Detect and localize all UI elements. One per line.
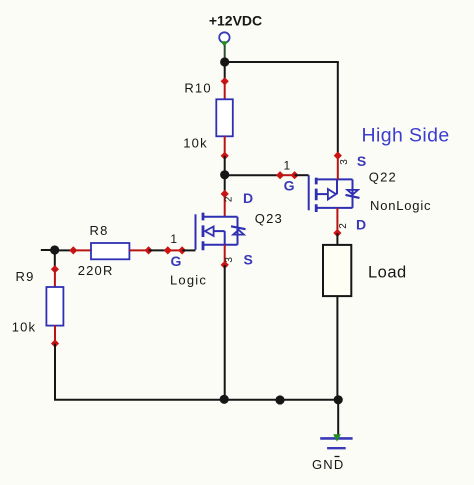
label 2 (Q22 drain pin number) <box>338 223 349 229</box>
svg-text:NonLogic: NonLogic <box>370 198 431 213</box>
wire ground rail middle <box>225 399 339 401</box>
pin mark Q23 gate inner <box>178 246 186 254</box>
label NonLogic <box>370 198 431 213</box>
wire center to R10 <box>224 62 226 81</box>
pin wire Q23 source <box>224 245 226 265</box>
svg-text:1: 1 <box>284 158 291 172</box>
svg-text:R10: R10 <box>184 81 211 96</box>
label D (Q22 drain) <box>356 216 366 232</box>
svg-text:R9: R9 <box>16 269 35 284</box>
label R8 <box>90 223 109 238</box>
transistor Q22 <box>309 175 360 212</box>
label 1 (Q22 gate pin number) <box>284 158 291 172</box>
wire R9 to ground rail <box>55 344 225 400</box>
svg-text:220R: 220R <box>78 263 114 278</box>
label R9 <box>16 269 35 284</box>
svg-text:3: 3 <box>224 257 235 263</box>
svg-text:10k: 10k <box>12 320 37 335</box>
ground GND symbol <box>320 434 352 448</box>
svg-text:10k: 10k <box>183 136 208 151</box>
svg-text:Load: Load <box>368 264 407 282</box>
svg-text:D: D <box>356 216 366 232</box>
resistor R9 <box>46 287 63 326</box>
wire load to ground rail <box>336 296 338 400</box>
svg-text:+12VDC: +12VDC <box>209 13 262 29</box>
pin mark R8 pin1 <box>69 246 77 254</box>
node rail Q23 <box>220 395 229 404</box>
pin wire Q22 source <box>337 156 339 180</box>
pin wire Q22 drain to load <box>336 233 338 245</box>
svg-text:2: 2 <box>224 196 235 202</box>
label Load <box>368 264 407 282</box>
svg-text:3: 3 <box>339 159 350 165</box>
label S (Q22 source) <box>357 153 366 169</box>
svg-text:S: S <box>357 153 366 169</box>
label 220R (R8 value) <box>78 263 114 278</box>
label 10k (R9 value) <box>12 320 37 335</box>
node top junction <box>220 57 229 66</box>
pin wire R10 pin2 <box>224 136 226 156</box>
wire R10 to gate node <box>224 156 226 175</box>
wire supply stub <box>224 45 226 62</box>
wire rail to ground symbol <box>337 400 339 437</box>
pin mark Q22 drain <box>333 229 341 237</box>
wire junction to R9 <box>54 250 56 269</box>
wire Q23 gate lead <box>182 249 195 251</box>
pin mark Q22 gate inner <box>290 171 298 179</box>
svg-text:GND: GND <box>312 457 345 472</box>
label Q23 <box>255 211 283 226</box>
pin mark Q23 gate <box>164 246 172 254</box>
wire right vertical to Q22 source <box>337 62 339 156</box>
label S (Q23 source) <box>244 251 253 267</box>
pin mark Q22 source <box>334 151 342 159</box>
label GND <box>312 457 345 472</box>
pin mark R10 pin2 <box>221 152 229 160</box>
node R8 R9 junction <box>50 245 59 254</box>
wire gate node stub left <box>41 249 55 251</box>
wire Q22 gate lead <box>295 174 309 176</box>
pin wire Q22 gate <box>280 174 295 176</box>
wire Q23 drain from gate node <box>224 175 226 194</box>
svg-text:Q22: Q22 <box>369 169 397 184</box>
svg-text:G: G <box>171 253 182 269</box>
pin wire R9 pin2 <box>54 326 56 344</box>
node rail load <box>334 395 343 404</box>
pin wire Q23 drain <box>224 194 226 217</box>
pin wire R10 pin1 <box>224 81 226 99</box>
wire junction to R8 <box>55 249 74 251</box>
svg-text:S: S <box>244 251 253 267</box>
svg-text:Logic: Logic <box>170 272 207 287</box>
svg-text:High Side: High Side <box>362 125 450 147</box>
pin mark R8 pin2 <box>144 246 152 254</box>
node rail middle <box>275 395 284 404</box>
pin wire Q23 gate <box>168 249 182 251</box>
label High Side <box>362 125 450 147</box>
label 3 (Q23 source pin number) <box>224 257 235 263</box>
pin mark Q22 gate outer <box>276 171 284 179</box>
svg-text:G: G <box>284 177 295 193</box>
pin wire Q22 drain <box>336 208 338 233</box>
svg-text:1: 1 <box>170 232 177 246</box>
pin wire R8 pin2 <box>129 249 148 251</box>
label D (Q23 drain) <box>243 190 253 206</box>
load resistor <box>323 245 351 296</box>
label 10k (R10 value) <box>183 136 208 151</box>
resistor R8 <box>91 243 129 259</box>
supply terminal +12VDC <box>219 32 229 47</box>
label R10 <box>184 81 211 96</box>
pin mark Q23 source <box>221 261 229 269</box>
pin mark Q23 drain <box>221 190 229 198</box>
pin wire R9 pin1 <box>54 269 56 287</box>
svg-text:2: 2 <box>338 223 349 229</box>
pin mark R10 pin1 <box>221 77 229 85</box>
label 3 (Q22 source pin number) <box>339 159 350 165</box>
label Q22 <box>369 169 397 184</box>
label G (Q23 gate) <box>171 253 182 269</box>
svg-text:Q23: Q23 <box>255 211 283 226</box>
pin mark R9 pin2 <box>51 339 59 347</box>
node gate junction <box>220 170 229 179</box>
pin mark R9 pin1 <box>51 265 59 273</box>
label 2 (Q23 drain pin number) <box>224 196 235 202</box>
wire top horizontal <box>225 61 339 63</box>
label G (Q22 gate) <box>284 177 295 193</box>
label +12VDC <box>209 13 262 29</box>
transistor Q23 <box>196 213 246 251</box>
label Logic <box>170 272 207 287</box>
wire R8 to Q23 gate <box>149 249 168 251</box>
svg-text:R8: R8 <box>90 223 109 238</box>
resistor R10 <box>216 99 233 136</box>
label 1 (Q23 gate pin number) <box>170 232 177 246</box>
wire gate node to Q22 gate <box>225 174 280 176</box>
pin wire R8 pin1 <box>73 249 91 251</box>
svg-text:D: D <box>243 190 253 206</box>
wire Q23 source to ground rail <box>224 265 226 400</box>
